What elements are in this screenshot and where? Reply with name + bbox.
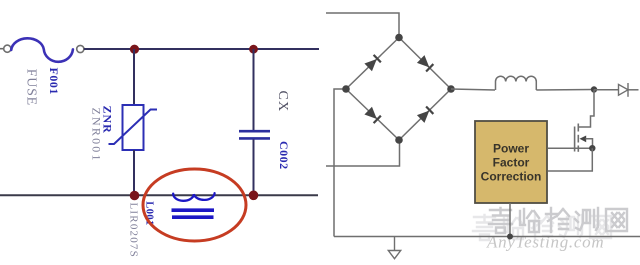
wire: body to source: [586, 139, 593, 148]
wire: ZNR top lead: [133, 49, 135, 105]
wire: AC input stub to bridge bottom: [326, 143, 400, 166]
node: switch node junction: [591, 86, 597, 92]
node: top rail / ZNR junction: [130, 45, 139, 54]
wire: source sense return to PFC box: [548, 148, 592, 171]
svg-text:Factor: Factor: [493, 156, 530, 170]
svg-text:Correction: Correction: [481, 170, 542, 184]
ground: [388, 237, 400, 259]
diode D1 (left-top edge): [364, 55, 381, 72]
wire: AC input stub to bridge top: [326, 13, 399, 34]
inductor L001 core bars: [172, 208, 215, 212]
wire: inductor to switch node: [536, 89, 594, 92]
wire: bridge left vertex to bottom rail: [334, 89, 346, 237]
node: PFC ground junction: [507, 234, 513, 240]
svg-text:LIR0207S: LIR0207S: [128, 203, 140, 258]
diode D2 (top-right edge): [417, 55, 434, 72]
node: bottom rail / CX junction: [249, 191, 259, 201]
bridge rectifier BD1: [346, 38, 451, 141]
diode D4 (bottom-right edge): [417, 106, 434, 123]
varistor ZNR (ZNR001): [109, 105, 158, 150]
wire: drain lead from switch node: [578, 90, 594, 128]
svg-text:F001: F001: [47, 68, 61, 95]
wire: PFC box ground lead: [509, 203, 511, 237]
wire: gate drive line from PFC box through gate to source node: [548, 147, 592, 149]
node: bridge right vertex: [447, 85, 455, 93]
node: bottom rail / ZNR junction: [130, 191, 140, 201]
svg-text:AnyTesting.com: AnyTesting.com: [486, 233, 604, 252]
node: bridge left vertex: [342, 85, 350, 93]
svg-text:ZNR001: ZNR001: [90, 108, 104, 163]
svg-text:FUSE: FUSE: [24, 69, 39, 106]
wire: bridge + output to boost inductor: [451, 89, 495, 90]
node: source junction: [589, 145, 595, 151]
inductor L001 coil: [173, 193, 214, 201]
diode D3 (left-bottom edge): [364, 107, 381, 124]
fuse F001: [4, 38, 84, 62]
svg-text:C002: C002: [277, 141, 291, 170]
highlight ellipse around L001: [143, 169, 246, 241]
wire: stub from left edge to fuse terminal: [0, 48, 4, 50]
PFC controller U1 box: [475, 121, 547, 203]
svg-text:Power: Power: [493, 142, 529, 156]
capacitor CX (C002): [239, 49, 270, 195]
watermark (decorative): [473, 208, 627, 252]
wire: bottom rail: [0, 194, 318, 196]
node: top rail / CX junction: [249, 45, 258, 54]
MOSFET body arrow: [580, 136, 587, 143]
wire: bottom rail (DC return): [334, 236, 640, 238]
inductor L (boost choke): [496, 76, 537, 90]
diode D5 (boost output diode): [594, 83, 639, 97]
node: bridge top vertex: [395, 34, 403, 42]
watermark (decorative): [0, 0, 1, 1]
wire: top rail: [84, 48, 319, 50]
svg-text:CX: CX: [275, 91, 290, 113]
transistor Q1 (MOSFET): [575, 124, 579, 152]
node: bridge bottom vertex: [395, 136, 403, 144]
wire: ZNR bottom lead: [133, 150, 135, 195]
